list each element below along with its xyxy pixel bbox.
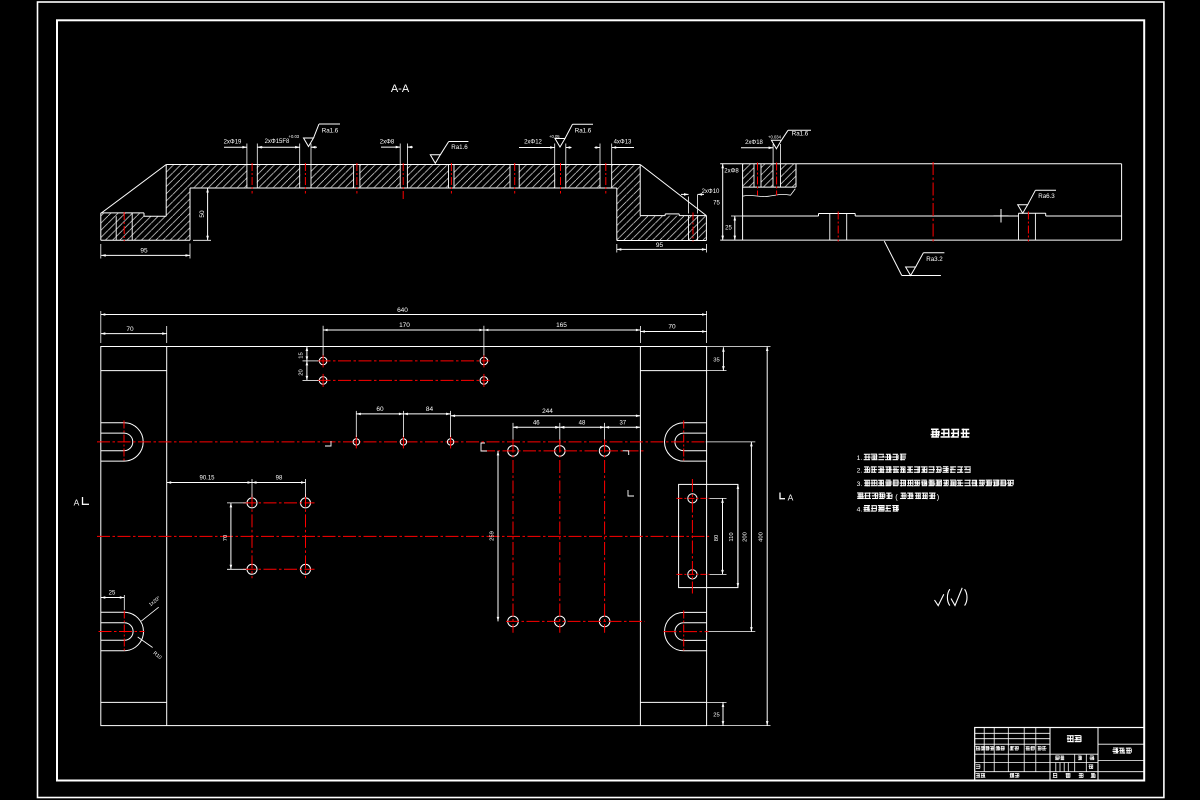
svg-text:A: A [74, 498, 80, 508]
svg-text:60: 60 [376, 406, 384, 413]
side view plate top edge [743, 215, 819, 217]
plate hole 1 edges [829, 214, 831, 241]
long red centerline upper [97, 441, 706, 443]
surface symbol s2 on bar [430, 155, 440, 164]
left foot pad [101, 212, 144, 214]
dim 70 vertical [227, 502, 246, 504]
surface symbol s5 Ra6.3 [1018, 205, 1028, 214]
A-A section: left leg and foot hatch [101, 165, 190, 241]
dim 110 [737, 484, 739, 587]
side view top edge [720, 163, 1121, 165]
svg-text:244: 244 [542, 408, 553, 415]
red centerline bottom-left slot [99, 631, 145, 633]
bottom-right U slot [684, 611, 707, 613]
dim 2xD15F8 [262, 146, 300, 148]
corner break marks [481, 443, 487, 451]
svg-text:A: A [788, 493, 794, 503]
top-left U slot [101, 422, 124, 424]
left chamfer diagonal [102, 165, 167, 213]
side view block hole gaps [754, 164, 761, 186]
dim 180 vertical [497, 451, 499, 622]
svg-text:+0.034: +0.034 [768, 134, 782, 139]
dim 244 [451, 415, 641, 417]
right strip edge [639, 347, 641, 726]
section marker A right [779, 493, 781, 500]
svg-text:A-A: A-A [391, 83, 410, 95]
dim extension lines above bar [246, 144, 248, 165]
bar hole edge lines [246, 165, 248, 189]
dims 15/20 [306, 347, 308, 361]
left foot hole edges [115, 216, 117, 240]
square hole pattern [247, 498, 257, 508]
dim 4xD13 [595, 147, 601, 149]
title block texts [1067, 735, 1082, 742]
A-A section: right leg and foot hatch [617, 165, 707, 241]
svg-text:4xΦ13: 4xΦ13 [614, 140, 632, 146]
svg-text:95: 95 [140, 248, 148, 255]
svg-text:37: 37 [619, 421, 626, 427]
svg-text:640: 640 [397, 307, 408, 314]
red verticals in slots [123, 421, 125, 463]
long red centerline middle [97, 535, 709, 537]
top-right U slot [684, 422, 707, 424]
dim 2xD8 [381, 146, 400, 148]
side view right edge [1121, 164, 1123, 240]
dim 84 [403, 413, 450, 415]
dim 170 [323, 329, 484, 331]
bar hole gaps [247, 165, 256, 188]
dim 2xD12 [519, 147, 555, 149]
svg-text:70: 70 [223, 535, 229, 541]
title block outline [975, 728, 1144, 781]
side block hole edges [753, 164, 755, 187]
red lines square pattern [243, 502, 315, 504]
svg-text:165: 165 [556, 322, 567, 329]
red main centerline side view [932, 162, 934, 244]
svg-text:3.: 3. [857, 481, 863, 488]
right chamfer diagonal [640, 165, 706, 216]
plate hole 2 edges [1018, 213, 1020, 240]
svg-text:2xΦ18: 2xΦ18 [745, 140, 763, 146]
top slot holes [319, 357, 327, 365]
right leg edges [639, 165, 641, 216]
red lines right rect [691, 479, 693, 594]
svg-text:15: 15 [299, 352, 305, 358]
slot leader notes bottom-left [141, 607, 159, 621]
svg-text:35: 35 [713, 358, 719, 364]
svg-text:Ra1.6: Ra1.6 [792, 130, 809, 137]
svg-text:Ra1.6: Ra1.6 [322, 127, 339, 134]
dim 35 right strip [707, 370, 727, 372]
left strip edge [166, 347, 168, 726]
dims 46/48/37 [512, 423, 514, 446]
svg-text:Ra6.3: Ra6.3 [1038, 193, 1055, 200]
dim 25 bottom-left slot [101, 597, 125, 599]
svg-text:2xΦ19: 2xΦ19 [224, 139, 242, 145]
dim 60 [356, 413, 403, 415]
strip division lines [101, 370, 167, 372]
left foot outline [100, 213, 102, 240]
right rect holes [688, 494, 697, 503]
surface symbol s3 [555, 139, 565, 148]
svg-text:48: 48 [579, 421, 586, 427]
side view hatched block [743, 164, 796, 187]
freehand break line [743, 189, 796, 197]
dim 2xD19 [224, 146, 247, 148]
svg-text:Ra1.6: Ra1.6 [451, 144, 468, 151]
dim 70 right [640, 331, 706, 333]
plate pad 2 [1019, 212, 1046, 214]
dim 165 [639, 326, 641, 343]
bottom-left U slot [101, 611, 125, 613]
surface symbol s1 [304, 138, 314, 147]
svg-text:46: 46 [533, 421, 540, 427]
side view bottom edge [720, 239, 1121, 241]
svg-text:259: 259 [489, 531, 495, 541]
red centerline plate hole 2 [1027, 212, 1029, 242]
A-A section: hatched bar [190, 165, 617, 189]
svg-text:4.: 4. [857, 507, 863, 514]
svg-text:70: 70 [668, 324, 676, 331]
surface symbol s6 Ra3.2 leader [884, 241, 902, 275]
side view height dim [722, 164, 724, 240]
plan view outline [101, 347, 707, 726]
svg-text:90.15: 90.15 [199, 476, 215, 482]
tech requirements title [931, 429, 970, 438]
svg-text:75: 75 [713, 201, 720, 207]
dim 200 [750, 442, 752, 632]
svg-text:1.: 1. [857, 455, 863, 462]
dim 2xD10 right foot [688, 197, 690, 214]
small holes on centerline [353, 439, 359, 445]
dim 400 [766, 347, 768, 726]
svg-text:95: 95 [656, 242, 664, 249]
svg-text:2xΦ10: 2xΦ10 [702, 189, 720, 195]
svg-text:2xΦ8: 2xΦ8 [380, 139, 395, 145]
right foot outline [640, 215, 665, 217]
red centerline right foot [692, 213, 694, 242]
svg-text:170: 170 [399, 322, 410, 329]
big hole pattern circles [508, 446, 519, 457]
svg-text:84: 84 [426, 406, 434, 413]
svg-text:110: 110 [729, 532, 735, 541]
side view left edge [742, 164, 744, 240]
red centerlines side block holes [757, 163, 759, 196]
dim 95 left foot [100, 244, 102, 259]
svg-text:2xΦ12: 2xΦ12 [524, 139, 542, 145]
dim 50 left [193, 187, 211, 189]
side block bottom edge [743, 186, 796, 188]
red lines top slot pattern [318, 360, 490, 362]
title block verticals [1049, 728, 1051, 781]
ext lines top slot [322, 326, 324, 356]
svg-text:80: 80 [714, 535, 720, 541]
ext lines mid nodes [355, 411, 357, 437]
bar top edge [166, 164, 640, 166]
svg-text:2xΦ8: 2xΦ8 [724, 168, 739, 174]
red lines big pattern [512, 440, 514, 633]
svg-text:2xΦ15F8: 2xΦ15F8 [265, 139, 290, 145]
svg-text:200: 200 [743, 532, 749, 542]
right ext lines [710, 497, 727, 499]
dim 640 [100, 311, 102, 343]
surface symbol s4 [771, 140, 781, 149]
datum cross mark [1000, 209, 1002, 223]
svg-text:2.: 2. [857, 468, 863, 475]
right rectangle [679, 484, 738, 587]
svg-text:98: 98 [276, 476, 283, 482]
right foot pad bump [665, 213, 679, 215]
red centerline plate hole 1 [837, 212, 839, 242]
svg-text:20: 20 [299, 369, 305, 375]
svg-text:400: 400 [758, 532, 764, 542]
svg-text:Ra1.6: Ra1.6 [575, 127, 592, 134]
svg-text:50: 50 [199, 210, 206, 218]
svg-text:+0.03: +0.03 [289, 134, 300, 139]
dim 80 [722, 498, 724, 574]
left leg edge [165, 165, 167, 217]
side view dim 2xD18 [772, 144, 774, 164]
svg-text:25: 25 [109, 591, 116, 597]
roughness note checkmarks [935, 594, 944, 605]
red centerline left foot [123, 212, 125, 241]
side view dim 25 [731, 215, 743, 217]
red centerline bottom-right slot [664, 631, 709, 633]
dim 95 right foot [616, 244, 618, 253]
svg-text:25: 25 [713, 713, 719, 719]
svg-text:70: 70 [126, 326, 134, 333]
dims 90.15 / 98 [251, 479, 253, 497]
right foot hole edges [688, 216, 690, 241]
dim 25 bottom right strip [707, 701, 727, 703]
bar bottom edge [190, 187, 617, 189]
svg-text:Ra3.2: Ra3.2 [926, 256, 943, 263]
red hole centerlines in bar [251, 163, 253, 194]
title block mid cells [1074, 754, 1076, 772]
dim 70 left [166, 326, 168, 343]
title block horizontals [975, 732, 1050, 734]
svg-text:25: 25 [725, 226, 732, 232]
plate pad 1 [819, 213, 856, 215]
